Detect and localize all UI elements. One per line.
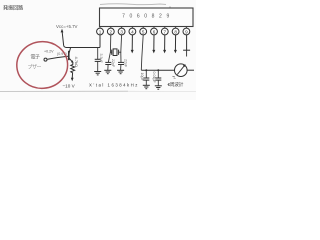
svg-text:8: 8 <box>174 30 177 35</box>
pin 6 <box>151 27 158 35</box>
svg-text:9: 9 <box>185 30 188 35</box>
svg-text:Vcc=+5.7V: Vcc=+5.7V <box>56 24 78 29</box>
svg-text:0.01μF: 0.01μF <box>152 72 156 84</box>
ground for C5 <box>155 86 162 89</box>
svg-text:22pF: 22pF <box>111 59 115 68</box>
svg-text:€周波計: €周波計 <box>168 81 184 88</box>
pin 8 lead supply arrow <box>174 35 177 54</box>
resistor R1 4.7k zigzag <box>71 63 75 76</box>
junction node C5 <box>157 69 159 71</box>
red annotation circle <box>15 40 69 90</box>
svg-text:2: 2 <box>110 30 113 35</box>
crystal X1 <box>110 49 121 56</box>
pin 9 <box>183 27 190 35</box>
capacitor C4 10uF <box>143 70 149 85</box>
svg-text:4.7kΩ: 4.7kΩ <box>74 57 79 68</box>
svg-text:+0.2V: +0.2V <box>44 49 54 53</box>
svg-text:電子: 電子 <box>31 54 41 61</box>
pin 8 <box>172 27 179 35</box>
svg-text:発振回路: 発振回路 <box>3 4 24 12</box>
svg-text:1: 1 <box>99 30 102 35</box>
ground for C3 <box>117 70 124 73</box>
capacitor C1 3.3uF on wire A <box>95 48 101 72</box>
meter output stub <box>187 69 194 71</box>
capacitor C2 <box>105 62 111 70</box>
faint bottom rule <box>0 90 128 92</box>
paper background <box>0 0 196 100</box>
IC U1 body <box>100 8 194 27</box>
svg-text:6: 6 <box>153 30 156 35</box>
pin 2 <box>107 27 114 35</box>
svg-text:5: 5 <box>142 30 145 35</box>
svg-text:−10 V: −10 V <box>63 84 76 89</box>
ground for C4 <box>143 85 150 88</box>
ground for C1 <box>94 72 101 75</box>
pin 7 lead supply arrow <box>163 35 166 54</box>
svg-text:7060829: 7060829 <box>122 13 174 19</box>
pin 3 lead down to C3 <box>120 35 123 63</box>
capacitor C3 <box>118 62 124 70</box>
svg-text:22pF: 22pF <box>123 59 127 68</box>
pin 5 <box>140 27 147 35</box>
pin 9 lead with stub bars <box>183 35 190 57</box>
svg-text:X’tal 16384kHz: X’tal 16384kHz <box>89 83 139 88</box>
faint page-edge squiggle above IC <box>100 3 166 6</box>
pin 4 <box>129 27 136 35</box>
svg-text:ブザー: ブザー <box>28 64 42 71</box>
output rail <box>141 69 174 71</box>
-10V supply arrow <box>71 76 73 79</box>
pin 3 <box>118 27 125 35</box>
pin 2 lead down to C2 <box>108 35 111 63</box>
pin 7 <box>161 27 168 35</box>
meter M1 <box>172 64 187 79</box>
svg-text:10μF: 10μF <box>140 73 144 82</box>
pin 4 lead supply arrow <box>131 35 134 54</box>
transistor Q1 <box>48 48 74 64</box>
ground for C2 <box>104 70 111 73</box>
svg-text:7: 7 <box>164 30 167 35</box>
buzzer terminal node <box>44 58 47 61</box>
wire A collector rail to pin1 <box>66 47 100 49</box>
wire pin1 lead down <box>99 35 101 48</box>
Vcc supply arrow <box>62 31 67 48</box>
svg-text:4: 4 <box>131 30 134 35</box>
pin 1 <box>97 27 104 35</box>
pin 6 lead supply arrow <box>152 35 155 54</box>
junction node C4 <box>145 69 147 71</box>
capacitor C5 0.01uF <box>155 70 161 86</box>
svg-text:3: 3 <box>120 30 123 35</box>
pin 5 lead down to output rail <box>141 35 143 70</box>
svg-text:3.3μF: 3.3μF <box>99 54 103 64</box>
